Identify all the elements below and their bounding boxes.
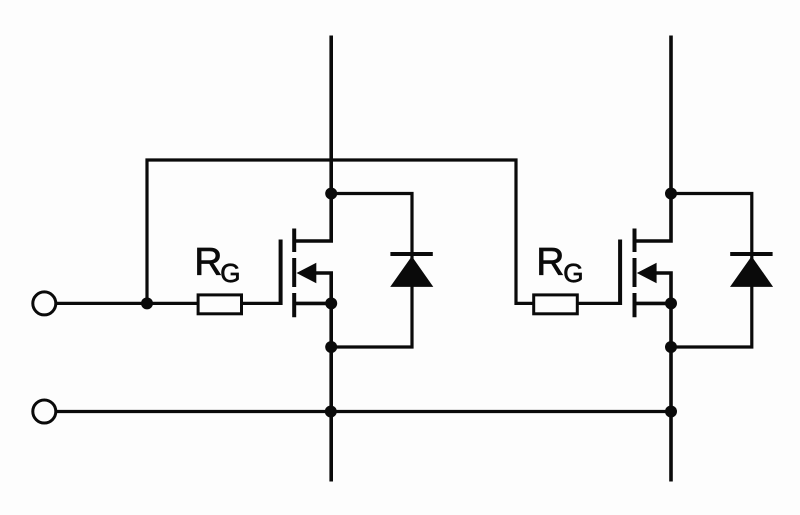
svg-text:G: G xyxy=(563,258,583,288)
svg-text:R: R xyxy=(194,240,222,283)
svg-text:R: R xyxy=(536,240,564,283)
svg-text:G: G xyxy=(220,258,240,288)
